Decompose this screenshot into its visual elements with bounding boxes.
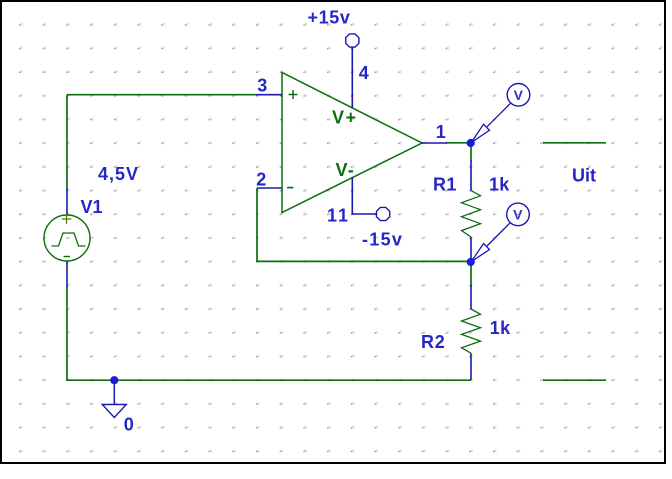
svg-text:1: 1 xyxy=(436,122,446,142)
svg-text:Uit: Uit xyxy=(572,166,596,186)
junction node middle xyxy=(467,258,475,266)
svg-text:0: 0 xyxy=(124,414,134,434)
svg-text:+15v: +15v xyxy=(308,8,351,28)
voltage probe V (middle node) xyxy=(471,203,529,262)
voltage probe V (output node) xyxy=(471,84,530,143)
op-amp U1 xyxy=(282,73,422,213)
terminal +15v xyxy=(346,34,359,47)
svg-text:11: 11 xyxy=(327,205,350,225)
label R2 xyxy=(421,332,446,352)
resistor R1 xyxy=(462,160,481,259)
svg-text:4: 4 xyxy=(359,63,369,83)
wire xyxy=(66,95,68,188)
port Uit bottom line xyxy=(543,379,606,381)
svg-text:R2: R2 xyxy=(421,332,446,352)
wire xyxy=(257,188,470,261)
resistor R2 xyxy=(462,285,481,380)
svg-text:1k: 1k xyxy=(490,318,511,338)
wire xyxy=(470,262,472,286)
pin 2 lead xyxy=(257,187,282,189)
pin 1 output lead xyxy=(421,142,447,144)
label Uit xyxy=(572,166,596,186)
junction node ground xyxy=(110,376,118,384)
junction node output xyxy=(467,139,475,147)
svg-text:-15v: -15v xyxy=(362,229,403,249)
label V1 xyxy=(81,197,103,217)
pin 3 lead xyxy=(256,94,282,96)
pin number 1 xyxy=(436,122,446,142)
pin 4 lead xyxy=(351,47,353,108)
wire xyxy=(114,379,471,381)
wire xyxy=(67,288,114,380)
voltage source V1 xyxy=(44,188,90,288)
label 1k R1 xyxy=(489,174,510,194)
svg-text:2: 2 xyxy=(256,169,266,189)
pin number 11 xyxy=(327,205,350,225)
pin number 4 xyxy=(359,63,369,83)
svg-text:3: 3 xyxy=(257,75,267,95)
label +15v xyxy=(308,8,351,28)
port Uit top line xyxy=(543,142,606,144)
svg-text:V: V xyxy=(514,87,524,103)
ground 0 xyxy=(102,380,126,418)
svg-text:R1: R1 xyxy=(433,174,457,194)
pin number 2 xyxy=(256,169,266,189)
svg-text:4,5V: 4,5V xyxy=(98,164,139,184)
svg-text:V-: V- xyxy=(336,160,355,180)
pin 11 lead xyxy=(352,178,376,215)
wire xyxy=(446,142,470,144)
svg-text:V: V xyxy=(513,207,523,223)
wire xyxy=(470,143,472,161)
svg-text:1k: 1k xyxy=(489,174,510,194)
svg-text:V1: V1 xyxy=(81,197,103,217)
label R1 xyxy=(433,174,457,194)
svg-text:V+: V+ xyxy=(332,108,358,128)
label -15v xyxy=(362,229,403,249)
label 4,5V xyxy=(98,164,139,184)
terminal -15v xyxy=(376,207,389,220)
label 0 xyxy=(124,414,134,434)
pin number 3 xyxy=(257,75,267,95)
wire xyxy=(67,94,256,96)
label 1k R2 xyxy=(490,318,511,338)
